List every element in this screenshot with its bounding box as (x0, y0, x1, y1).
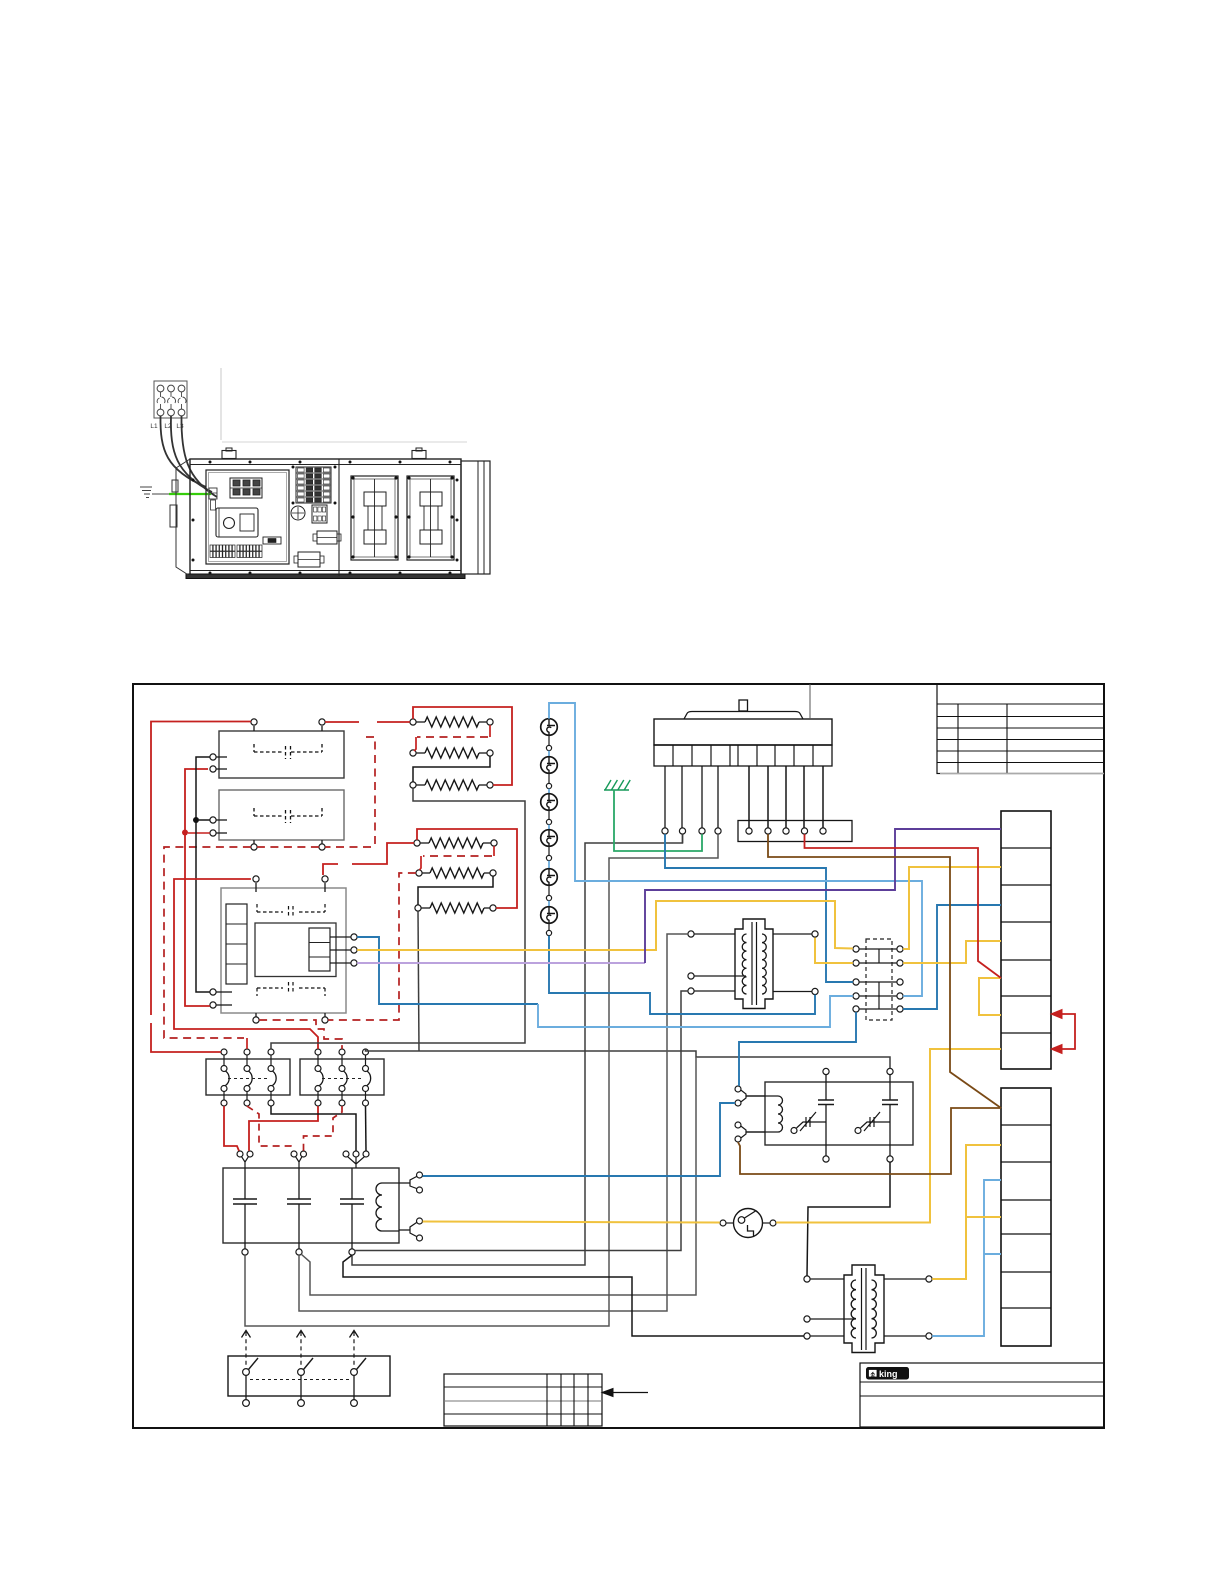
wire black R5 to R6 link (418, 876, 493, 905)
wire red R1-R3 bank loop (413, 707, 512, 785)
spade terminal A2 lower pair (735, 1122, 765, 1142)
wire lamp link 5-6 (548, 901, 550, 907)
controller A1 inner cpu box (255, 923, 336, 977)
contactor K1 coil dashed symbol (254, 744, 322, 759)
capacitor C2 (287, 1168, 311, 1249)
controller A1 left register column (226, 904, 247, 984)
connector X3 row5 (859, 1008, 897, 1010)
terminal lamp node 2 (548, 774, 550, 784)
svg-text:king: king (879, 1369, 898, 1379)
wire lamp link 4-5 (548, 861, 550, 869)
wire red dashed F1 pole2 bottom to G2 (247, 1106, 294, 1151)
heater resistor R4 (420, 842, 429, 844)
terminal S1 pin1 (662, 828, 668, 834)
capacitor C1 (233, 1168, 257, 1249)
terminal T2 R2 (884, 1335, 926, 1337)
heater resistor R2 (416, 752, 425, 754)
wire red dashed F2 pole2 bottom to G2 right (304, 1106, 343, 1151)
contactor K2 coil dashed symbol (254, 808, 322, 823)
terminal K2 bottom pins (253, 840, 255, 844)
cabinet screw dots (192, 461, 459, 575)
indicator lamp H3 (541, 794, 558, 811)
rotary thermostat S1 body (654, 700, 832, 766)
wire yellow XT1 row5-row6 link (979, 978, 1001, 1015)
junction black dot (193, 817, 199, 823)
wire red A1 to F2 pole1 (174, 879, 318, 1049)
terminal block TB1 (L1 L2 L3 supply) (154, 381, 187, 418)
terminal lamp node 6 (548, 924, 550, 931)
terminal T2 A (810, 1278, 844, 1280)
terminal C5 bottom (887, 1156, 893, 1162)
overload relay F2 (3-pole) (300, 1059, 384, 1095)
cabinet heater panel 2 (407, 476, 454, 560)
wire red R1 to R2 dashed link (489, 725, 491, 737)
wire black capacitor C3 to T2 C (343, 1255, 804, 1336)
controller A1 lower dashed coil (257, 982, 325, 996)
cabinet aux relay (312, 505, 327, 523)
inductor L1 (in capacitor box) (376, 1183, 399, 1231)
wire yellow X3 row2-right to XT1 row4 (903, 941, 1001, 963)
wire lightblue X3 row4-right to lamp chain top (549, 703, 922, 996)
cabinet knockout circle (291, 506, 305, 520)
wire purple A1 to XT1 row1 (357, 962, 645, 964)
terminal C5 top (887, 1068, 893, 1074)
transformer T2 body (844, 1265, 884, 1353)
capacitor C3 (340, 1168, 364, 1249)
connector X3 bridge link rows1-2 (878, 949, 880, 963)
terminal lamp node 1 (548, 736, 550, 746)
contactor K1 box (219, 731, 344, 778)
wire black K1/K2 left pins riser (196, 757, 210, 992)
wire red dashed A1 bottom-left to F2 pole2 (259, 1020, 342, 1049)
terminal X2-3 (783, 828, 789, 834)
transformer T1 primary coil (742, 934, 746, 994)
wire red dashed R5 to A1 bottom-right (328, 873, 416, 1020)
spade terminal group G1 (capacitor box top) (237, 1151, 253, 1168)
capacitor bank box (223, 1168, 399, 1243)
controller A1 upper dashed coil (257, 904, 325, 918)
capacitor C4 (in A2) (818, 1075, 834, 1157)
thermal cutout S2 (720, 1209, 776, 1238)
wire black T2 A to C5 bottom (807, 1162, 890, 1276)
wire black stub to K2 upper-left (199, 819, 210, 821)
rc-filter A2 box (765, 1082, 913, 1145)
wire black F2 pole3 bottom to G3 right (365, 1106, 368, 1151)
wire black capacitor C3 to T1 L3 (355, 991, 688, 1251)
cabinet small din part (green wire target) (209, 488, 217, 510)
spade terminal pair P2 (capacitor box right, lower) (399, 1218, 423, 1241)
wire brown X2-2 to XT2 row1 (768, 834, 1001, 1108)
cabinet breaker stack (6 rows) (296, 467, 331, 503)
wire black F1 pole3 bottom to G3 (271, 1106, 356, 1151)
wire black A2 junction drop to capacitor C2 line (301, 1057, 696, 1295)
disconnect switch S3 poles (242, 1331, 367, 1407)
indicator lamp H5 (541, 869, 558, 886)
title block (bottom right) (860, 1363, 1104, 1427)
arrow pointer to parts table (602, 1389, 648, 1397)
logo king (867, 1368, 909, 1380)
terminal S1 pin4 (715, 828, 721, 834)
wire supply-curves from TB1 into cabinet (160, 416, 206, 487)
wire yellow X3 row1-right to XT1 row2 (903, 867, 1001, 949)
spade terminal A2 upper pair (735, 1086, 765, 1106)
wire red R4-R6 bank loop (417, 829, 517, 908)
terminal column XT1 (right, upper) (1001, 811, 1051, 1069)
terminal C3 bottom (349, 1249, 355, 1255)
terminal T1 L2 (694, 975, 746, 977)
terminal T2 R1 (884, 1278, 926, 1280)
junction red dot (182, 830, 188, 836)
terminal lamp node 3 (548, 811, 550, 820)
spade terminal group G2 (291, 1151, 307, 1168)
spade terminal pair P1 (capacitor box right, upper) (399, 1172, 423, 1193)
wire gray capacitor C1 to S1 pin4 (245, 834, 718, 1326)
terminal lamp node 4 (548, 847, 550, 856)
wire blue S1 pin1 to X3 row3 (665, 834, 853, 982)
wire blue lamp chain bottom to T1 R2 (549, 936, 815, 1014)
terminal K1 top-left (253, 726, 255, 731)
capacitor C5 (in A2) (882, 1075, 898, 1157)
cabinet transformer small 2 (294, 552, 324, 567)
rc-filter coil L2 (746, 1096, 783, 1132)
wire blue X3 row5 to A2 spade (739, 1012, 856, 1086)
terminal T2 B (810, 1318, 856, 1320)
cabinet contactor block (230, 478, 262, 498)
wire brown A2 spade to XT2 row1 (738, 1108, 1001, 1174)
connector X3 row2 (859, 962, 897, 964)
wire lamp link 1-2 (548, 751, 550, 757)
cabinet heater panel 1 (351, 476, 398, 560)
parts table (bottom left) (444, 1374, 602, 1426)
varistor RV1 (in A2) (791, 1112, 826, 1134)
connector X3 row1 (859, 948, 897, 950)
wire ground green (169, 493, 211, 495)
vertical reference line above S1 (809, 684, 811, 719)
heater resistor R6 (421, 907, 430, 909)
indicator lamp H6 (541, 907, 558, 924)
terminal A1 top pins (255, 883, 257, 892)
cabinet power supply box (216, 508, 258, 537)
contactor K2 box (219, 790, 344, 840)
cabinet enclosure outline (170, 448, 490, 579)
wire yellow S2 to XT1 row7 (776, 1049, 1001, 1223)
terminal lamp node 5 (548, 886, 550, 896)
controller A1 box (221, 888, 346, 1013)
heater resistor R3 (416, 784, 425, 786)
terminal S1 pin3 (699, 828, 705, 834)
overload relay F1 (3-pole) (206, 1059, 290, 1095)
wire black capacitor C3 to S1 pin2 (352, 834, 683, 1265)
cabinet inner control panel (206, 470, 289, 564)
wire red jumper arrows XT1 rows6-7 (1051, 1010, 1075, 1054)
terminal S1 pin2 (679, 828, 685, 834)
wire red K2/K1 left pins riser (185, 769, 210, 1006)
cabinet terminal strip rows (210, 545, 262, 558)
cabinet divider wall (338, 459, 340, 576)
spade terminal group G3 (343, 1151, 369, 1168)
wire black R2 to R3 link (413, 756, 490, 782)
terminal X2-2 (765, 828, 771, 834)
wire black bank2 riser (418, 911, 419, 1051)
terminal A1 left pins (216, 991, 232, 993)
terminal A1 right pins (330, 936, 351, 938)
terminal A1 bottom pins (255, 1013, 257, 1017)
svg-text:L1: L1 (150, 423, 158, 430)
wire S1 pin stems (664, 766, 666, 828)
wire blue A2 spade lower to P1 (423, 1103, 735, 1176)
cabinet transformer small 1 (313, 531, 341, 544)
terminal C1 bottom (242, 1249, 248, 1255)
wire black bank1 to F1 pole3 top (271, 788, 525, 1049)
wire green ground to S1 pin3 (614, 790, 702, 851)
terminal C4 bottom (823, 1156, 829, 1162)
wire yellow P1 to thermal cutout S2 (423, 1222, 720, 1223)
wire blue X3 row5-right to XT1 row3 (903, 905, 1001, 1009)
wire red A1 top-right to R4 (323, 864, 338, 875)
wire gray capacitor C2 to T1 L1 (299, 934, 688, 1311)
wire red stub to K2 left (188, 832, 210, 834)
terminal T1 R1 (773, 933, 812, 935)
terminal K1 top-right (321, 726, 323, 731)
wire yellow A1 to X3 row1 (357, 901, 853, 950)
wire red supply left loop (151, 722, 251, 1016)
indicator lamp H4 (541, 830, 558, 847)
terminal C2 bottom (296, 1249, 302, 1255)
varistor RV2 (in A2) (855, 1112, 890, 1134)
disconnect switch S3 box (228, 1356, 390, 1396)
terminal K2 left pins (216, 819, 227, 821)
wire red F1 pole1 bottom to G1 (224, 1106, 239, 1151)
wire red dashed riser to K2 bottom (366, 737, 375, 845)
connector X3 bridge link rows3-5 (878, 982, 880, 1009)
drawing frame border (133, 684, 1104, 1428)
transformer T1 body (735, 919, 773, 1009)
connector X3 dashed outline (866, 939, 892, 1020)
terminal T2 C (810, 1335, 844, 1337)
terminal K1 left pins (216, 756, 227, 758)
wire red K1 to R1 (with hop gap) (325, 721, 359, 723)
controller A1 output column (309, 928, 330, 971)
connector X3 row3 (859, 981, 897, 983)
transformer T1 secondary coil (762, 934, 766, 994)
terminal T1 L1 (694, 933, 735, 935)
wire lamp link 3-4 (548, 825, 550, 830)
wire lightblue A1 to X3 row4 (538, 996, 853, 1027)
wire red R4 to R5 dashed link (493, 846, 495, 856)
indicator lamp H2 (541, 757, 558, 774)
indicator lamp H1 (541, 719, 558, 736)
wire lightblue T2 R2 to XT2 rows (932, 1180, 1001, 1336)
wire black S1 pin2 stub (682, 834, 684, 843)
svg-text:L3: L3 (176, 423, 184, 430)
transformer T2 secondary coil (872, 1280, 877, 1338)
revision table (top right) (937, 684, 1104, 774)
terminal column XT2 (right, lower) (1001, 1088, 1051, 1346)
wire yellow T2 R1 to XT2 rows (932, 1145, 1001, 1279)
wire lamp link 2-3 (548, 789, 550, 794)
heater resistor R1 (416, 721, 425, 723)
wire yellow T1 R1 to X3 row2 (815, 938, 853, 963)
cabinet small relay module (263, 537, 281, 544)
connector X3 row4 (859, 995, 897, 997)
wire blue A1 exit (357, 937, 538, 1004)
terminal X2-5 (820, 828, 826, 834)
terminal X2-4 (801, 828, 807, 834)
ground symbol earth (schematic) (604, 780, 630, 790)
terminal T1 R2 (773, 991, 812, 993)
wire red F2 pole1 bottom to G1 right (249, 1106, 318, 1151)
terminal T1 L3 (694, 990, 735, 992)
wire red X2-4 to XT1 row5 (805, 834, 1002, 978)
wire black F2 pole3 top to filter A2 (366, 1049, 891, 1069)
terminal X2-1 (746, 828, 752, 834)
faint page artifact lines (220, 368, 222, 440)
terminal strip X2 box (738, 821, 852, 842)
ground symbol PE (left of cabinet) (140, 487, 152, 498)
transformer T2 primary coil (851, 1280, 856, 1338)
heater resistor R5 (422, 872, 430, 874)
terminal C4 top (823, 1068, 829, 1074)
